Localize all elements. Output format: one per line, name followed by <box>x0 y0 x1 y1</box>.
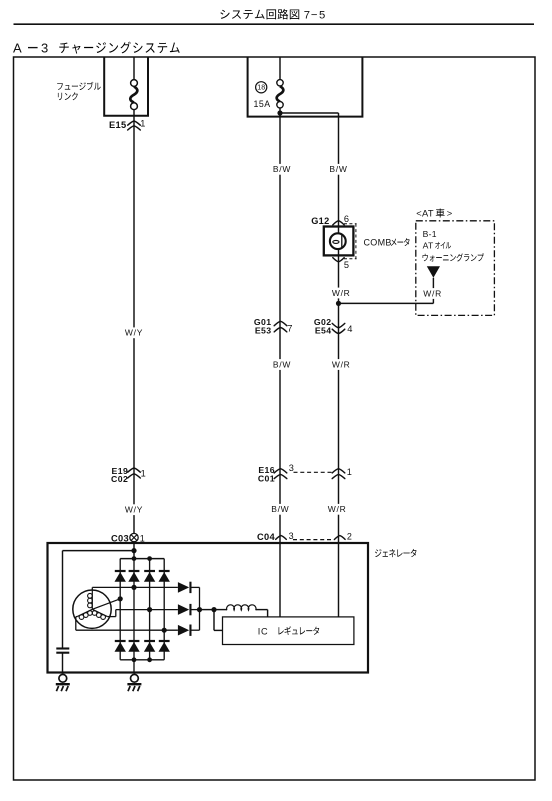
svg-text:3: 3 <box>289 531 294 541</box>
svg-text:5: 5 <box>319 10 325 22</box>
rectifier column 2 <box>133 559 135 660</box>
svg-text:15A: 15A <box>254 99 271 109</box>
diode D3 (positive side) <box>144 570 155 572</box>
svg-text:B/W: B/W <box>329 164 347 174</box>
neutral lead <box>92 599 120 610</box>
svg-text:7: 7 <box>304 10 310 22</box>
diode D7 (negative side) <box>144 640 155 642</box>
wire label W/R inside AT box <box>422 288 444 299</box>
label リンク <box>58 93 62 100</box>
diode D6 (negative side) <box>129 640 140 642</box>
label ジェネレータ <box>375 549 382 557</box>
generator box <box>48 543 369 673</box>
svg-text:4: 4 <box>347 323 352 334</box>
charge warning lamp symbol <box>330 233 346 249</box>
svg-text:3: 3 <box>41 40 48 55</box>
junction: fuse output node <box>277 110 282 115</box>
svg-text:W/R: W/R <box>423 288 442 298</box>
wire label B/W <box>271 359 293 370</box>
wire: B/W - W/R run from fuse branch through G12 to IC regulator <box>338 113 340 617</box>
svg-text:6: 6 <box>344 214 349 224</box>
svg-text:18: 18 <box>257 85 265 92</box>
wire to IC regulator <box>213 610 215 631</box>
svg-text:COMB: COMB <box>364 238 392 248</box>
fuse number 18 circle <box>256 82 267 93</box>
wire: W/Y run from fusible link E15 down to generator C03 <box>133 57 135 80</box>
rectifier bottom bus <box>120 659 164 661</box>
wire label W/Y lower <box>123 504 145 515</box>
junction node W/R <box>336 301 341 306</box>
rectifier column 1 <box>119 559 121 660</box>
wire label B/W lower <box>269 504 291 515</box>
trio diode D10 <box>178 604 189 615</box>
svg-text:IC: IC <box>258 626 268 636</box>
svg-text:E54: E54 <box>315 326 332 336</box>
header title システム回路図 7-5 <box>220 10 229 19</box>
COMB meter dashed outline extension <box>344 223 357 225</box>
svg-text:2: 2 <box>347 531 352 541</box>
phase A lead <box>91 587 93 590</box>
wire to capacitor <box>62 551 64 649</box>
AT vehicle dashed box <box>416 221 495 316</box>
wire stubs through lamp box <box>338 227 340 234</box>
svg-text:3: 3 <box>289 463 294 473</box>
phase C lead <box>76 616 77 618</box>
svg-text:1: 1 <box>141 469 146 479</box>
stator (3-phase windings) <box>73 590 111 628</box>
label ウォーニングランプ <box>423 254 428 262</box>
rectifier top bus <box>120 558 164 560</box>
trio output bus <box>199 587 201 630</box>
diode D2 (positive side) <box>129 570 140 572</box>
wire from AT lamp <box>432 278 434 304</box>
svg-text:G12: G12 <box>311 216 329 226</box>
wire: fuse branch horizontal <box>280 112 339 114</box>
svg-text:B/W: B/W <box>273 164 291 174</box>
diode D8 (negative side) <box>159 640 170 642</box>
svg-text:E15: E15 <box>109 120 126 130</box>
svg-text:B/W: B/W <box>271 504 289 514</box>
svg-text:W/R: W/R <box>328 504 347 514</box>
fusible link symbol <box>130 87 137 103</box>
svg-text:−: − <box>311 10 318 22</box>
svg-text:<AT: <AT <box>416 209 434 219</box>
wire label W/Y <box>123 327 145 338</box>
fusible link box (open top) <box>104 57 148 116</box>
svg-text:A: A <box>13 40 22 55</box>
AT oil warning lamp triangle <box>427 266 440 278</box>
diode D4 (positive side) <box>159 570 170 572</box>
ground (rectifier) <box>131 674 139 682</box>
rectifier column 3 <box>149 559 151 660</box>
ground (capacitor) <box>59 674 67 682</box>
capacitor C (noise suppressor) <box>56 647 69 649</box>
svg-text:C01: C01 <box>258 473 275 483</box>
charge warning lamp box U:G12 <box>324 227 354 256</box>
svg-text:B-1: B-1 <box>423 229 437 239</box>
svg-text:5: 5 <box>344 260 349 270</box>
svg-text:W/Y: W/Y <box>125 505 143 515</box>
wire label W/R lower <box>326 504 348 515</box>
svg-text:1: 1 <box>140 119 145 129</box>
wire: B/W run from fuse to IC regulator <box>279 57 281 80</box>
svg-text:E53: E53 <box>255 326 272 336</box>
svg-text:1: 1 <box>347 467 352 477</box>
diode D5 (negative side) <box>115 640 126 642</box>
svg-text:7: 7 <box>287 322 292 333</box>
svg-text:C04: C04 <box>257 532 275 542</box>
ground drop from rectifier <box>133 660 135 673</box>
field coil (rotor winding) <box>214 609 227 611</box>
connector G12 pin 5 <box>333 258 344 262</box>
phase B lead <box>107 616 115 618</box>
svg-text:>: > <box>447 209 452 219</box>
svg-text:W/Y: W/Y <box>125 328 143 338</box>
IC regulator box <box>223 617 354 645</box>
wire label B/W left <box>271 164 293 175</box>
svg-text:AT: AT <box>423 240 434 250</box>
svg-text:W/R: W/R <box>332 288 351 298</box>
wire label W/R main <box>330 288 352 299</box>
rectifier column 4 <box>163 559 165 660</box>
svg-text:C02: C02 <box>111 474 128 484</box>
wire label W/R <box>330 359 352 370</box>
label フュージブル <box>57 83 62 90</box>
wire label B/W right <box>328 164 350 175</box>
fuse box (open top) <box>248 57 363 117</box>
header rule <box>14 23 535 25</box>
fuse symbol <box>277 86 284 101</box>
svg-text:W/R: W/R <box>332 359 351 369</box>
trio diode D11 <box>178 625 189 636</box>
trio diode D9 <box>178 582 189 593</box>
node B+ junction <box>63 550 135 552</box>
svg-text:B/W: B/W <box>273 359 291 369</box>
diode D1 (positive side) <box>115 570 126 572</box>
